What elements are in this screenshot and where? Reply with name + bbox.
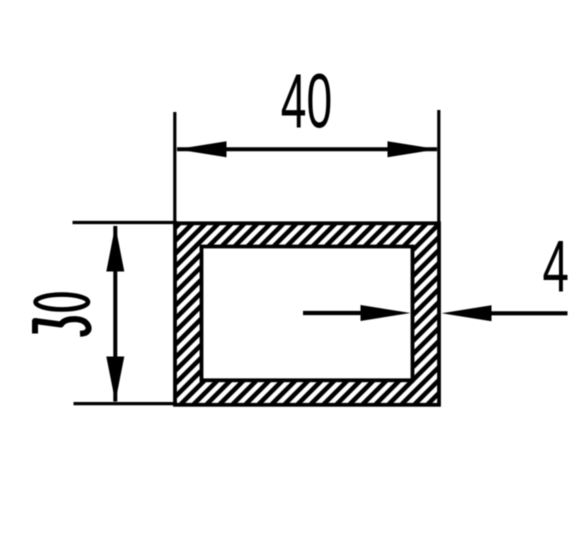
tube outer outline — [175, 223, 439, 404]
arrowhead 4 right (points left at outer wall) — [442, 305, 492, 321]
wall dimension 4 leader line left — [303, 311, 362, 315]
wall dimension 4 leader line right — [490, 311, 568, 315]
arrowhead 4 left (points right at inner wall) — [361, 305, 411, 321]
arrowhead 40 left — [177, 141, 227, 157]
dimension line 30 — [113, 226, 117, 402]
tube inner outline — [202, 247, 413, 381]
arrowhead 30 top — [106, 226, 124, 272]
extension line 30 bottom — [74, 402, 178, 405]
tube wall hatching — [175, 223, 439, 404]
dimension line 40 — [177, 147, 437, 151]
extension line 30 top — [73, 221, 178, 224]
svg-text:4: 4 — [543, 226, 569, 308]
arrowhead 40 right — [388, 141, 438, 157]
extension line 40 right — [437, 110, 440, 222]
svg-text:40: 40 — [281, 60, 332, 145]
dimension text 30 : digit 0 (rotated) — [36, 295, 88, 310]
arrowhead 30 bottom — [106, 357, 124, 403]
extension line 40 left — [173, 112, 176, 226]
dimension text 30 : digit 3 (rotated, CAD style) — [35, 319, 89, 334]
